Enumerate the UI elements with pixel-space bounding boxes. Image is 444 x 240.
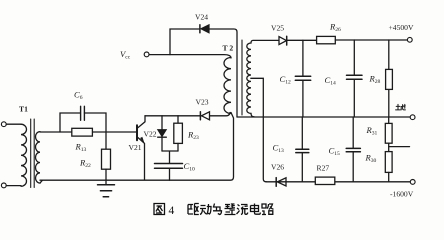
char lu (road) bbox=[262, 204, 274, 215]
resistor R31 bbox=[385, 123, 392, 143]
resistor R13 bbox=[72, 128, 93, 136]
caption figure 4 drive and rectifier circuit bbox=[154, 204, 274, 218]
wire R23 drop bbox=[177, 116, 179, 123]
transistor V21 collector bbox=[138, 116, 145, 128]
wire C14 branch bbox=[353, 40, 355, 117]
capacitor C14 bbox=[347, 75, 363, 79]
char yu (and) bbox=[213, 204, 222, 215]
svg-text:V24: V24 bbox=[195, 13, 208, 22]
wire V25 to R26 bbox=[287, 39, 317, 41]
wire bottom rail bbox=[266, 181, 410, 183]
svg-text:V23: V23 bbox=[196, 98, 209, 107]
svg-text:T1: T1 bbox=[19, 105, 28, 114]
svg-text:R27: R27 bbox=[317, 164, 330, 173]
svg-text:V26: V26 bbox=[271, 163, 284, 172]
wire R22 drop bbox=[105, 132, 107, 149]
transformer T1 core bbox=[31, 119, 35, 188]
wire V22 R23 junction to C10 bbox=[162, 151, 178, 163]
wire T1 primary top lead bbox=[7, 123, 22, 125]
wire R31 R30 junction bbox=[388, 143, 390, 151]
diode V26 bbox=[277, 178, 286, 186]
label di ground bbox=[396, 104, 406, 110]
wire V24 to T2 core line bbox=[209, 29, 237, 117]
transformer T1 left terminal bottom bbox=[1, 183, 6, 188]
resistor R30 bbox=[385, 152, 392, 173]
wire tap stub bbox=[389, 146, 410, 148]
svg-text:V21: V21 bbox=[129, 143, 142, 152]
char tu (figure) bbox=[154, 204, 165, 215]
wire V22 bottom bbox=[161, 137, 163, 151]
transformer T2 core right bar bbox=[241, 40, 243, 115]
char zheng (whole) bbox=[225, 204, 236, 215]
terminal ground pad bbox=[410, 115, 415, 120]
diode V25 bbox=[279, 37, 287, 45]
resistor R27 bbox=[315, 177, 335, 184]
resistor R28 bbox=[386, 69, 393, 89]
wire riser to C6 left bbox=[60, 113, 80, 132]
resistor R22 bbox=[102, 149, 111, 169]
transformer T1 secondary winding bbox=[36, 132, 43, 184]
wire C10 to rail bbox=[169, 168, 171, 180]
terminal Vcc bbox=[144, 52, 149, 57]
svg-text:4: 4 bbox=[169, 205, 175, 217]
char qu (drive) bbox=[188, 204, 199, 215]
transformer T2 secondary winding bbox=[247, 40, 279, 116]
wire V24 branch bbox=[170, 29, 199, 55]
transformer T1 primary winding bbox=[21, 124, 27, 186]
wire C15 branch bbox=[352, 117, 354, 182]
terminal -1600V bbox=[410, 180, 415, 185]
wire R31 top lead bbox=[388, 117, 390, 123]
wire T1 primary bottom lead bbox=[7, 185, 22, 187]
char dian (electric) bbox=[251, 204, 261, 215]
svg-text:-1600V: -1600V bbox=[390, 190, 414, 199]
ground bbox=[98, 185, 115, 197]
terminal +4500V bbox=[407, 37, 412, 42]
diode V24 bbox=[201, 25, 209, 33]
svg-text:T 2: T 2 bbox=[223, 44, 234, 53]
wire collector rail to T2 primary bottom bbox=[145, 113, 230, 116]
wire R22 to ground bbox=[105, 169, 107, 184]
char liu (flow) bbox=[237, 205, 249, 215]
wire T2 secondary tap bbox=[251, 78, 266, 182]
diode V22 bbox=[158, 130, 167, 137]
char dong (move) bbox=[200, 204, 211, 215]
wire middle ground rail bbox=[237, 116, 410, 118]
svg-text:V22: V22 bbox=[144, 130, 157, 139]
transistor V21 emitter arrow bbox=[141, 137, 145, 143]
wire R23 bottom bbox=[177, 143, 179, 151]
wire R30 bottom lead bbox=[388, 172, 390, 181]
wire V22 drop bbox=[161, 116, 163, 130]
capacitor C12 bbox=[295, 76, 310, 80]
transistor V21 base bar bbox=[136, 125, 138, 140]
svg-text:+4500V: +4500V bbox=[389, 23, 414, 32]
wire base line from T1 secondary top to V21 base bbox=[40, 131, 137, 133]
wire Vcc to T2 primary bbox=[149, 55, 231, 58]
wire R28 branch bbox=[388, 40, 390, 117]
diode V23 bbox=[202, 112, 210, 120]
capacitor C6 bbox=[81, 106, 85, 120]
transistor V21 emitter bbox=[138, 138, 145, 180]
transformer T2 primary winding bbox=[224, 58, 231, 114]
capacitor C10 bbox=[155, 164, 183, 169]
wire C13 branch bbox=[301, 117, 303, 182]
capacitor C15 bbox=[346, 148, 360, 151]
wire C6 right lead bbox=[84, 113, 106, 132]
wire left bottom rail bbox=[40, 113, 234, 181]
resistor R23 bbox=[174, 123, 183, 143]
capacitor C13 bbox=[296, 149, 309, 152]
wire R26 to +4500V bbox=[335, 39, 407, 41]
wire C12 branch bbox=[302, 40, 304, 117]
transformer T1 left terminal top bbox=[1, 122, 6, 127]
resistor R26 bbox=[317, 36, 336, 43]
svg-text:V25: V25 bbox=[271, 24, 284, 33]
